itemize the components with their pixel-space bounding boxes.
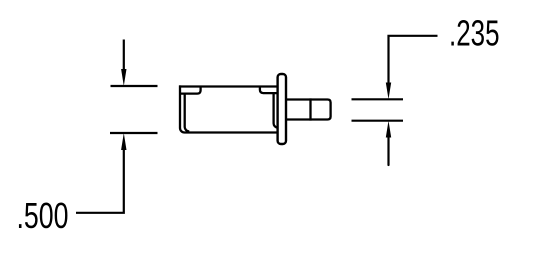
right undercut groove bbox=[260, 88, 278, 94]
right dim top arrow shaft + leader to label bbox=[389, 36, 438, 83]
right dim upper witness line bbox=[352, 98, 404, 100]
pin divider bbox=[309, 98, 311, 120]
body left edge and bottom edge (rounded bottom-left corner) bbox=[180, 85, 279, 132]
flange bbox=[278, 74, 286, 144]
left tangent line bbox=[185, 95, 190, 132]
left dim lower witness line bbox=[110, 132, 158, 134]
left undercut groove bbox=[180, 88, 201, 94]
left dim upper witness line bbox=[111, 85, 158, 87]
pin outline bbox=[285, 100, 331, 120]
body top edge bbox=[179, 85, 279, 87]
right dim bottom arrow shaft bbox=[387, 138, 389, 166]
left dim bottom arrowhead bbox=[121, 133, 126, 150]
left dim top arrowhead bbox=[121, 69, 126, 86]
left dim bottom arrow shaft + leader to label bbox=[76, 150, 124, 213]
right dim bottom arrowhead bbox=[386, 121, 391, 138]
left dim top arrow shaft bbox=[123, 40, 125, 70]
svg-text:.500: .500 bbox=[17, 195, 69, 236]
right dim top arrowhead bbox=[386, 83, 391, 100]
svg-text:.235: .235 bbox=[449, 13, 500, 54]
right dim lower witness line bbox=[352, 120, 404, 122]
right tangent line bbox=[274, 94, 278, 128]
